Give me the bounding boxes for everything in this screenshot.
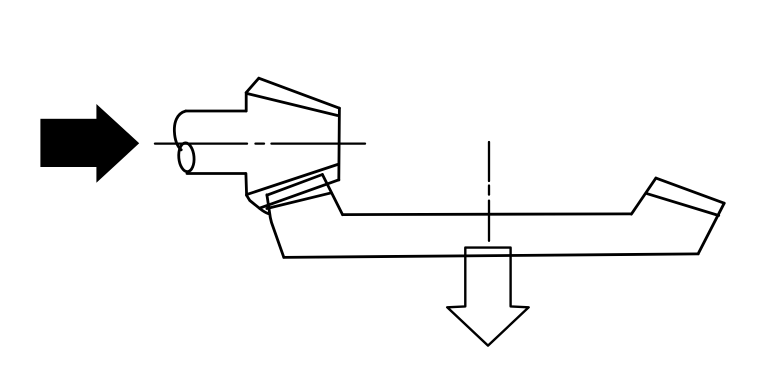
ring gear left rim end corner	[260, 208, 269, 213]
ring gear left outer edge	[267, 195, 284, 257]
pinion top cone edge	[259, 78, 340, 108]
shaft left end arc	[174, 111, 185, 150]
pinion top tooth line	[247, 93, 338, 115]
output arrow (outline, pointing down)	[447, 248, 529, 346]
ring gear right rim top	[656, 178, 724, 203]
pinion left face upper	[245, 93, 248, 111]
ring gear left slant edge	[322, 175, 342, 215]
pinion bottom chamfer	[247, 195, 260, 208]
shaft bottom line	[187, 172, 246, 175]
shaft end face ellipse	[178, 142, 196, 172]
shaft top line	[186, 110, 246, 113]
ring gear right edge	[698, 203, 724, 254]
vertical centerline (ring gear axis, dash-dot)	[488, 142, 490, 241]
ring gear left rim upper line	[267, 175, 323, 196]
ring gear left rim lower line	[267, 193, 332, 209]
ring gear right rim inner line	[647, 194, 719, 216]
pinion right face	[337, 108, 340, 180]
input arrow (solid black, pointing right)	[40, 104, 139, 183]
pinion top chamfer	[246, 78, 259, 92]
pinion bottom tooth line	[247, 165, 338, 195]
pinion left face lower	[244, 174, 248, 196]
ring gear top surface	[343, 212, 631, 216]
ring gear bottom line	[284, 254, 698, 258]
pinion bottom cone edge	[260, 180, 339, 208]
ring gear right slant edge	[631, 178, 656, 214]
horizontal centerline (dash-dot axis of pinion shaft)	[155, 142, 365, 144]
